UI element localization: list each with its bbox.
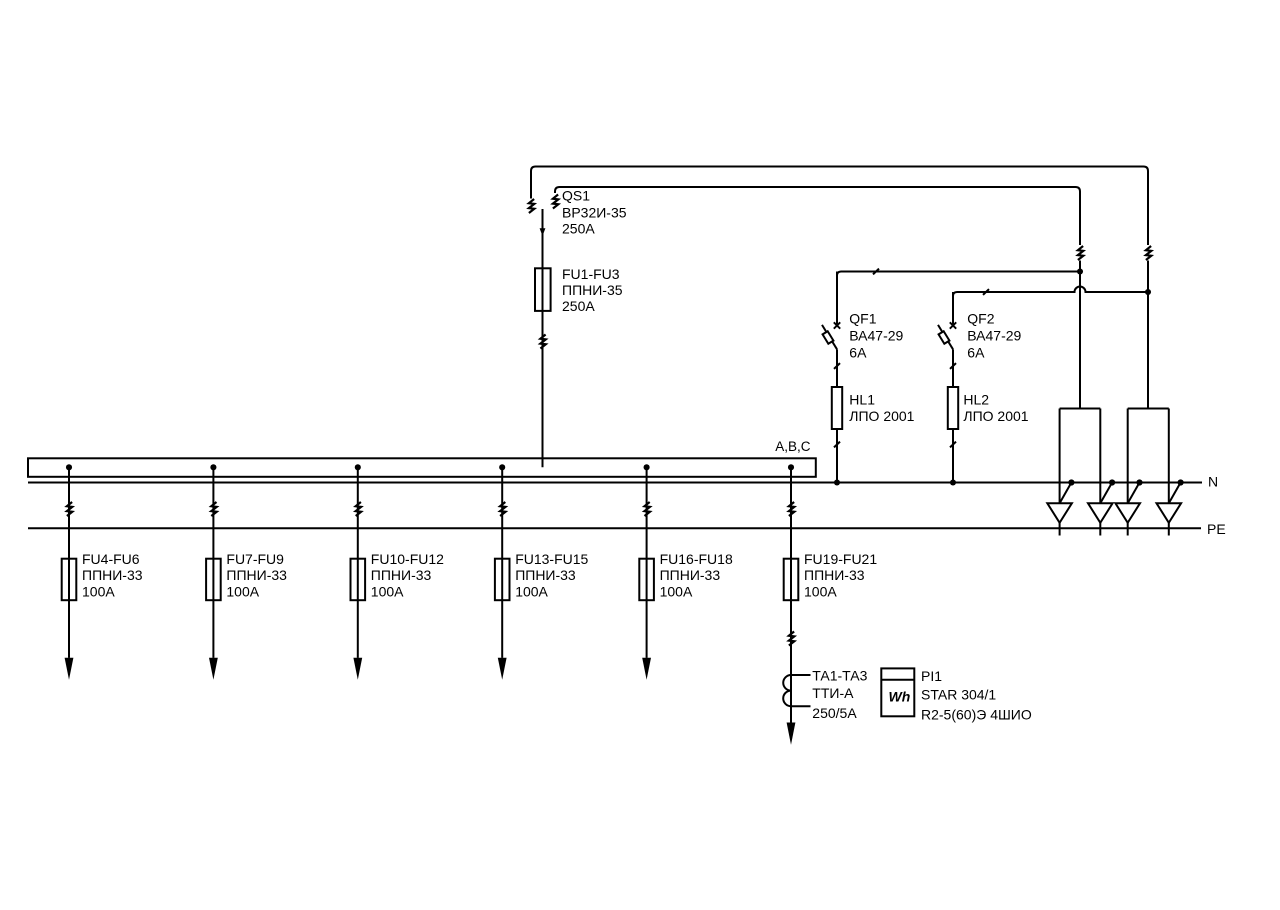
svg-text:100А: 100А	[660, 584, 693, 600]
svg-text:ППНИ-33: ППНИ-33	[226, 567, 287, 583]
svg-text:100А: 100А	[226, 584, 259, 600]
svg-text:250А: 250А	[562, 298, 595, 314]
svg-text:100А: 100А	[515, 584, 548, 600]
svg-text:ППНИ-33: ППНИ-33	[82, 567, 143, 583]
svg-text:PI1: PI1	[921, 668, 942, 684]
svg-text:ВА47-29: ВА47-29	[967, 327, 1021, 343]
svg-text:ППНИ-33: ППНИ-33	[515, 567, 576, 583]
svg-text:PE: PE	[1207, 521, 1226, 537]
svg-text:100А: 100А	[371, 584, 404, 600]
svg-text:N: N	[1208, 474, 1218, 490]
svg-text:ВА47-29: ВА47-29	[849, 327, 903, 343]
svg-text:STAR 304/1: STAR 304/1	[921, 687, 996, 703]
svg-text:FU10-FU12: FU10-FU12	[371, 551, 444, 567]
svg-text:ТА1-ТА3: ТА1-ТА3	[812, 667, 867, 683]
svg-text:ППНИ-33: ППНИ-33	[804, 567, 865, 583]
svg-text:ЛПО 2001: ЛПО 2001	[963, 408, 1028, 424]
svg-text:HL1: HL1	[849, 391, 875, 407]
svg-text:ТТИ-А: ТТИ-А	[812, 685, 854, 701]
svg-text:HL2: HL2	[963, 391, 989, 407]
svg-text:А,В,С: А,В,С	[775, 439, 811, 454]
svg-text:100А: 100А	[804, 584, 837, 600]
svg-text:R2-5(60)Э 4ШИО: R2-5(60)Э 4ШИО	[921, 707, 1032, 723]
svg-text:QS1: QS1	[562, 188, 590, 204]
svg-text:ВР32И-35: ВР32И-35	[562, 205, 627, 221]
svg-text:Wh: Wh	[889, 689, 911, 705]
svg-text:ППНИ-33: ППНИ-33	[660, 567, 721, 583]
svg-text:QF1: QF1	[849, 310, 876, 326]
svg-text:250А: 250А	[562, 221, 595, 237]
svg-text:FU16-FU18: FU16-FU18	[660, 551, 733, 567]
svg-text:FU4-FU6: FU4-FU6	[82, 551, 140, 567]
svg-text:6А: 6А	[967, 344, 985, 360]
svg-text:6А: 6А	[849, 344, 867, 360]
svg-text:QF2: QF2	[967, 310, 994, 326]
svg-text:ЛПО 2001: ЛПО 2001	[849, 408, 914, 424]
svg-text:FU1-FU3: FU1-FU3	[562, 266, 620, 282]
svg-text:ППНИ-33: ППНИ-33	[371, 567, 432, 583]
svg-text:FU19-FU21: FU19-FU21	[804, 551, 877, 567]
svg-text:FU13-FU15: FU13-FU15	[515, 551, 588, 567]
svg-text:250/5А: 250/5А	[812, 705, 857, 721]
svg-text:ППНИ-35: ППНИ-35	[562, 282, 623, 298]
svg-text:FU7-FU9: FU7-FU9	[226, 551, 284, 567]
svg-text:100А: 100А	[82, 584, 115, 600]
